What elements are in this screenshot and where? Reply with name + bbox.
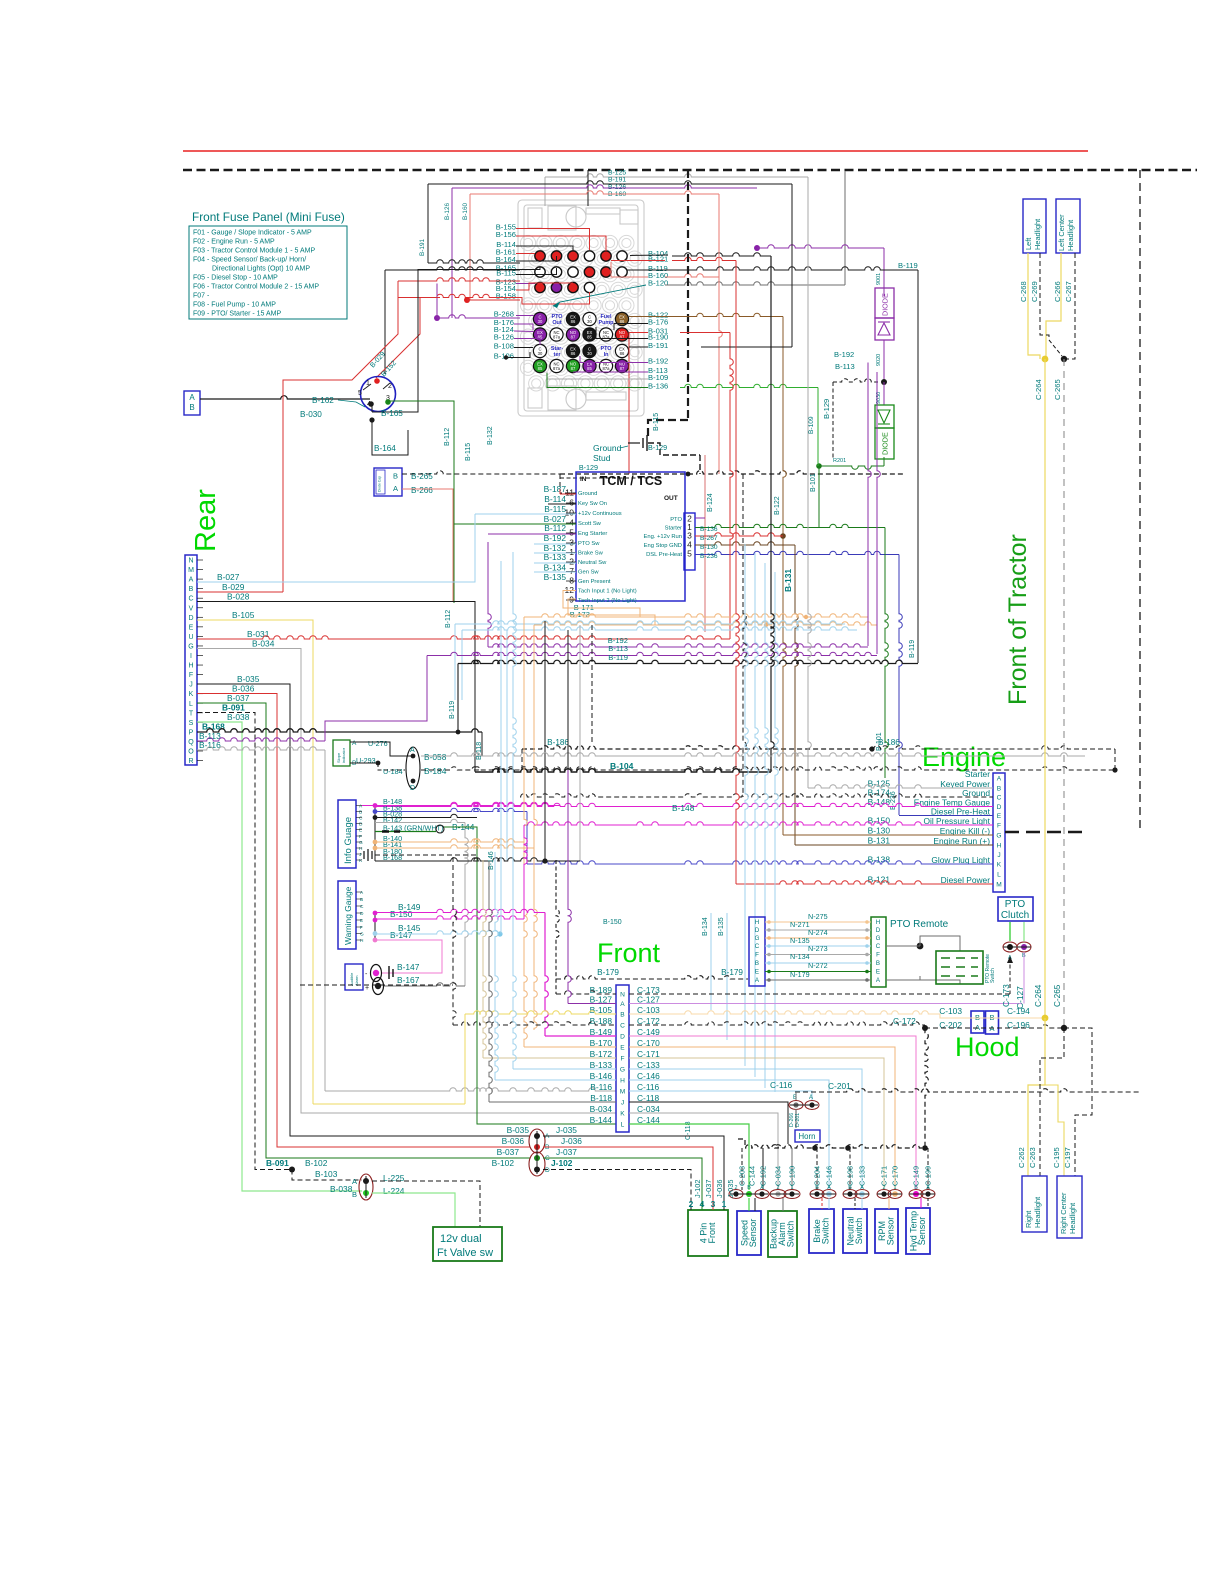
wire B-027 lightblue — [197, 514, 475, 582]
svg-text:Ft Valve sw: Ft Valve sw — [437, 1247, 493, 1259]
svg-text:C: C — [755, 943, 760, 950]
svg-text:B-116: B-116 — [590, 1082, 612, 1092]
wire B-170 orange vertical — [524, 1046, 616, 1048]
svg-text:Stud: Stud — [593, 453, 611, 463]
ground bus dashed vertical — [687, 170, 689, 420]
svg-text:L: L — [189, 701, 193, 708]
svg-text:Sensor: Sensor — [748, 1219, 758, 1248]
svg-text:R: R — [188, 758, 193, 765]
svg-text:5: 5 — [358, 390, 362, 397]
wire L-225 dashed — [372, 1181, 480, 1227]
svg-text:F01 - Gauge / Slope Indicator: F01 - Gauge / Slope Indicator - 5 AMP — [193, 230, 312, 237]
svg-text:Glow Plug Light: Glow Plug Light — [931, 855, 990, 865]
wire B-130 brown out — [695, 542, 795, 545]
svg-text:C-116: C-116 — [770, 1080, 793, 1090]
svg-text:1: 1 — [569, 547, 574, 557]
wire C-196 dashed — [925, 1025, 1064, 1028]
PTO remote wires — [765, 921, 871, 923]
PTO remote left connector — [749, 917, 765, 986]
svg-text:H: H — [876, 919, 880, 926]
engine connector strip — [993, 773, 1005, 892]
svg-text:C-269: C-269 — [1030, 281, 1039, 302]
B-179 dashed row — [556, 976, 748, 979]
wire B-168 black bumps — [197, 729, 482, 732]
gauge circle — [361, 377, 396, 412]
wire B-184 dashed — [421, 767, 1115, 770]
wire C-144 green — [629, 1124, 749, 1190]
svg-text:D-201: D-201 — [795, 1113, 801, 1127]
wire B-030 black from A/B — [200, 396, 370, 399]
svg-text:J-037: J-037 — [704, 1180, 713, 1199]
svg-text:C-197: C-197 — [1063, 1147, 1072, 1168]
wire B-142 — [375, 819, 465, 822]
TCM input wires — [475, 513, 540, 515]
svg-text:30: 30 — [538, 319, 543, 324]
svg-text:F: F — [359, 834, 362, 840]
svg-text:A: A — [352, 1177, 357, 1186]
diode D1 purple — [875, 288, 894, 318]
title rule red — [183, 150, 1088, 152]
svg-text:B-119: B-119 — [909, 640, 916, 658]
svg-text:B: B — [360, 897, 363, 903]
svg-text:B-105: B-105 — [232, 610, 255, 620]
svg-text:+12v Continuous: +12v Continuous — [578, 511, 622, 517]
svg-text:1: 1 — [722, 1199, 727, 1209]
svg-text:B-136: B-136 — [700, 526, 718, 533]
svg-text:5: 5 — [569, 528, 574, 538]
svg-text:E: E — [359, 828, 362, 834]
svg-text:P: P — [189, 729, 194, 736]
svg-text:C-172: C-172 — [893, 1016, 916, 1026]
svg-text:N-134: N-134 — [790, 952, 810, 961]
wire B-038 lightgreen — [197, 722, 362, 1191]
svg-text:L-224: L-224 — [383, 1186, 405, 1196]
svg-text:F: F — [360, 925, 363, 931]
svg-text:C-265: C-265 — [1053, 379, 1062, 400]
svg-text:B-160: B-160 — [462, 203, 469, 220]
wire B-265 dashed — [402, 471, 560, 474]
svg-text:Engine: Engine — [922, 742, 1006, 772]
wire 9020 — [883, 340, 885, 382]
info wires — [373, 803, 378, 808]
diode cap connector — [374, 468, 402, 496]
svg-text:Headlight: Headlight — [1066, 220, 1075, 251]
svg-text:B-134: B-134 — [702, 917, 709, 936]
svg-text:G: G — [876, 935, 881, 942]
legend box — [189, 226, 347, 319]
svg-text:D: D — [359, 822, 363, 828]
svg-text:N-271: N-271 — [790, 920, 810, 929]
svg-text:Out: Out — [552, 320, 561, 326]
svg-text:86: 86 — [620, 351, 625, 356]
svg-text:Front: Front — [597, 938, 661, 968]
svg-text:B-126: B-126 — [444, 203, 451, 220]
svg-text:Ground: Ground — [962, 788, 990, 798]
svg-text:B-034: B-034 — [590, 1104, 613, 1114]
svg-text:B-150: B-150 — [603, 919, 622, 926]
svg-text:C: C — [876, 943, 881, 950]
svg-text:N-179: N-179 — [790, 970, 810, 979]
svg-text:TCM / TCS: TCM / TCS — [600, 474, 663, 488]
wire B-138 glow plug — [527, 861, 993, 864]
svg-text:B-028: B-028 — [227, 592, 250, 602]
svg-text:B-191: B-191 — [648, 341, 668, 350]
svg-text:A: A — [926, 1185, 930, 1191]
svg-text:Switch: Switch — [854, 1218, 864, 1245]
sensor ground bus dashed — [738, 1139, 745, 1148]
svg-text:Scott Sw: Scott Sw — [578, 521, 602, 527]
svg-text:Left: Left — [1024, 238, 1033, 250]
svg-text:Clutch: Clutch — [1001, 910, 1029, 921]
svg-text:C-198: C-198 — [846, 1166, 855, 1186]
svg-text:Neutral Sw: Neutral Sw — [578, 560, 607, 566]
svg-text:U-276: U-276 — [368, 739, 388, 748]
svg-text:B-186: B-186 — [547, 738, 569, 747]
svg-text:B-058: B-058 — [424, 752, 447, 762]
wire B-118 gray vertical — [489, 861, 492, 1102]
backup pins — [770, 1190, 786, 1199]
L-connector circle — [359, 1174, 373, 1200]
svg-text:F08 - Fuel Pump - 10 AMP: F08 - Fuel Pump - 10 AMP — [193, 302, 276, 309]
svg-text:C-201: C-201 — [828, 1081, 851, 1091]
svg-text:A: A — [393, 484, 398, 493]
svg-text:A: A — [997, 776, 1002, 783]
svg-text:K: K — [620, 1111, 625, 1118]
svg-text:DIODE: DIODE — [881, 293, 890, 316]
svg-text:B: B — [189, 403, 194, 412]
svg-text:B-132: B-132 — [487, 426, 494, 445]
wire C-194 light orange — [940, 1014, 1045, 1018]
svg-text:B-103: B-103 — [315, 1169, 338, 1179]
svg-text:B-167: B-167 — [397, 975, 420, 985]
svg-text:87a: 87a — [553, 335, 561, 340]
svg-text:B-034: B-034 — [252, 639, 275, 649]
svg-text:Gen Sw: Gen Sw — [578, 570, 599, 576]
svg-text:B-035: B-035 — [237, 674, 260, 684]
dashed wires to right headlights — [1040, 1028, 1064, 1176]
front rows left wires — [556, 991, 616, 994]
svg-text:C-196: C-196 — [1007, 1020, 1030, 1030]
svg-text:B-164: B-164 — [374, 444, 396, 453]
wire B-101 green lower — [885, 528, 888, 779]
svg-text:H: H — [359, 846, 363, 852]
svg-text:H: H — [755, 919, 759, 926]
svg-text:B: B — [755, 960, 759, 967]
svg-text:Ground: Ground — [578, 491, 597, 497]
svg-text:G: G — [996, 833, 1001, 840]
svg-text:E: E — [620, 1045, 625, 1052]
svg-text:85: 85 — [587, 335, 592, 340]
wire C-133 lightblue — [629, 1069, 862, 1190]
engine bold dashes G row — [1005, 831, 1085, 834]
svg-text:6: 6 — [569, 498, 574, 508]
svg-text:C-267: C-267 — [1064, 281, 1073, 302]
rear connector strip — [185, 555, 197, 765]
lightblue verticals gauges — [500, 561, 502, 934]
B-186 label/dot — [869, 746, 874, 751]
light blue rows — [462, 627, 857, 630]
svg-text:D: D — [545, 1167, 550, 1174]
wire B-112 green from gauge — [388, 401, 454, 603]
svg-text:F05 - Diesel Stop - 10 AMP: F05 - Diesel Stop - 10 AMP — [193, 275, 278, 282]
wire C-171 tan — [629, 1058, 884, 1190]
svg-text:H: H — [997, 843, 1002, 850]
svg-text:Directional Lights (Opt) 10 AM: Directional Lights (Opt) 10 AMP — [212, 266, 310, 273]
svg-text:B: B — [189, 586, 194, 593]
svg-text:G: G — [360, 932, 364, 938]
fuse panel honeycomb — [520, 235, 642, 391]
svg-text:Eng Stop GND: Eng Stop GND — [644, 543, 682, 549]
svg-text:In: In — [604, 352, 609, 358]
connector A/B rear — [184, 391, 200, 415]
fuse dots — [535, 251, 545, 261]
svg-text:B-125: B-125 — [608, 170, 626, 177]
svg-text:Brake Sw: Brake Sw — [578, 551, 604, 557]
svg-text:S: S — [189, 720, 194, 727]
wire B-034 gray — [197, 649, 616, 1114]
wire B-105 yellow jog — [313, 1103, 465, 1105]
svg-text:Gen Present: Gen Present — [578, 579, 611, 585]
svg-text:B-118: B-118 — [476, 742, 483, 760]
svg-text:M: M — [188, 567, 194, 574]
svg-text:K: K — [189, 691, 194, 698]
svg-text:12v dual: 12v dual — [440, 1233, 482, 1245]
svg-text:A: A — [760, 1185, 764, 1191]
wire B-120 gray — [844, 171, 846, 285]
svg-text:B-091: B-091 — [222, 703, 245, 713]
svg-text:B-113: B-113 — [608, 644, 628, 653]
svg-text:Oil Pressure Light: Oil Pressure Light — [923, 816, 990, 826]
fuse panel F1 outline — [518, 200, 644, 416]
svg-text:B-129: B-129 — [648, 443, 667, 452]
svg-text:Right: Right — [1024, 1211, 1033, 1228]
svg-text:B-156: B-156 — [496, 230, 516, 239]
wire C-118 black — [629, 1102, 788, 1144]
sensor box stub wires — [748, 1198, 750, 1211]
svg-text:87: 87 — [620, 366, 625, 371]
svg-text:3: 3 — [569, 538, 574, 548]
svg-text:B-109: B-109 — [808, 416, 815, 434]
svg-text:N-275: N-275 — [808, 912, 828, 921]
slope wires — [350, 742, 413, 756]
svg-text:B-131: B-131 — [868, 836, 891, 846]
svg-text:B: B — [848, 1185, 852, 1191]
svg-text:B: B — [620, 1012, 625, 1019]
wire B-138 blue — [375, 808, 527, 811]
ground stud symbol — [628, 442, 640, 444]
svg-text:2: 2 — [569, 557, 574, 567]
svg-text:B-150: B-150 — [390, 909, 413, 919]
svg-text:J-037: J-037 — [556, 1147, 577, 1157]
wire B-119 black row mid — [458, 660, 918, 663]
wire B-121 diesel power red — [736, 261, 739, 885]
svg-text:Switch: Switch — [786, 1221, 796, 1248]
wire B-119 to diode top — [648, 267, 918, 270]
svg-text:C-265: C-265 — [1053, 984, 1062, 1007]
svg-text:Ground: Ground — [593, 443, 622, 453]
svg-text:B-124: B-124 — [707, 493, 714, 512]
svg-text:A: A — [860, 1185, 864, 1191]
svg-text:B-162: B-162 — [312, 396, 334, 405]
svg-text:J-102: J-102 — [693, 1180, 702, 1199]
svg-text:C-204: C-204 — [813, 1166, 822, 1186]
wire B-149 magenta — [373, 911, 378, 916]
svg-text:U: U — [188, 634, 193, 641]
svg-text:B-112: B-112 — [444, 428, 451, 446]
svg-text:C: C — [620, 1023, 625, 1030]
svg-text:J-036: J-036 — [715, 1180, 724, 1199]
svg-text:H: H — [360, 938, 364, 944]
svg-text:B-266: B-266 — [411, 486, 433, 495]
PTO Clutch box — [998, 897, 1033, 921]
speed sensor pins — [729, 1190, 743, 1199]
svg-text:Diesel Pre-Heat: Diesel Pre-Heat — [931, 806, 991, 816]
svg-text:F: F — [620, 1056, 624, 1063]
vertical B-160 left — [469, 194, 471, 300]
svg-text:C-262: C-262 — [1017, 1147, 1026, 1168]
svg-text:Switch: Switch — [990, 968, 996, 983]
svg-text:B-037: B-037 — [497, 1147, 520, 1157]
svg-text:B-106: B-106 — [494, 352, 514, 361]
svg-text:C: C — [359, 816, 363, 822]
svg-text:ter: ter — [554, 352, 562, 358]
wire B-192 purple row — [488, 644, 868, 647]
svg-text:Q: Q — [188, 739, 194, 746]
svg-text:F: F — [876, 952, 880, 959]
wire B-167 gray — [384, 983, 465, 986]
svg-text:H: H — [620, 1078, 625, 1085]
12v dual box — [433, 1227, 502, 1261]
dashed row B-186 — [522, 746, 872, 749]
wire C-127 lavender vertical — [1023, 952, 1025, 1004]
svg-text:B-129: B-129 — [579, 463, 598, 472]
svg-text:A: A — [189, 577, 194, 584]
svg-text:C-264: C-264 — [1034, 379, 1043, 400]
svg-text:PTO: PTO — [670, 517, 682, 523]
svg-text:G: G — [620, 1067, 625, 1074]
wire B-188 dashed — [300, 984, 453, 986]
svg-text:B-136: B-136 — [648, 382, 668, 391]
svg-text:B-188: B-188 — [590, 1016, 613, 1026]
wire B-143 green/wht — [375, 831, 436, 833]
svg-text:B-101: B-101 — [810, 473, 817, 492]
svg-text:B-102: B-102 — [492, 1158, 515, 1168]
wire B-130 engine kill — [783, 834, 993, 836]
svg-text:B-187: B-187 — [544, 484, 567, 494]
wire B-150 oil pressure — [524, 822, 993, 825]
svg-text:B-135: B-135 — [544, 572, 567, 582]
svg-text:N-274: N-274 — [808, 928, 828, 937]
svg-text:Engine Run (+): Engine Run (+) — [933, 836, 990, 846]
wire L-224 light green — [372, 1193, 455, 1227]
wire B-136 green out — [695, 524, 885, 527]
vertical B-191 left — [427, 184, 429, 263]
svg-text:D: D — [997, 804, 1002, 811]
svg-text:5: 5 — [687, 549, 692, 559]
svg-text:IN: IN — [580, 476, 587, 483]
svg-text:B-038: B-038 — [227, 712, 250, 722]
svg-text:B-036: B-036 — [502, 1136, 525, 1146]
wire C-265 dashed gray long — [1063, 359, 1065, 1028]
svg-text:M: M — [620, 1089, 626, 1096]
wire B-172 tan vertical — [483, 860, 486, 1058]
wire R201 green — [883, 457, 885, 466]
svg-text:E: E — [189, 624, 194, 631]
svg-text:D: D — [620, 1034, 625, 1041]
svg-text:B-130: B-130 — [868, 826, 891, 836]
wire B-180 ground sym — [367, 849, 369, 861]
wires B-134/B-135 lightblue into PTO remote — [710, 913, 712, 1010]
wire B-028b — [373, 815, 378, 820]
wire B-113 purple row mid — [427, 652, 877, 655]
svg-text:C-144: C-144 — [748, 1166, 757, 1186]
svg-text:Switch: Switch — [820, 1218, 830, 1245]
svg-text:85: 85 — [538, 366, 543, 371]
svg-text:E: E — [876, 969, 880, 976]
dashed B-129 vertical right — [832, 382, 834, 460]
svg-text:B-102: B-102 — [305, 1158, 328, 1168]
wire B-124 red vertical — [704, 455, 706, 632]
svg-text:B: B — [815, 1185, 819, 1191]
svg-text:Warning Gauge: Warning Gauge — [343, 886, 353, 945]
svg-text:Pump: Pump — [599, 320, 615, 326]
wire B-236 pre-heat row — [899, 815, 993, 817]
svg-text:+: + — [365, 985, 369, 992]
wire to right headlight yellow — [1028, 1018, 1045, 1176]
svg-text:Rear: Rear — [190, 489, 222, 552]
brake pins — [810, 1190, 824, 1199]
svg-text:B-119: B-119 — [898, 261, 918, 270]
wire C-170 orange — [629, 1047, 895, 1190]
svg-text:T: T — [189, 710, 194, 717]
wire C-034 gray — [629, 1113, 778, 1190]
fuse stub wires left — [516, 229, 590, 251]
svg-text:D: D — [360, 911, 364, 917]
wire B-131 engine run — [795, 844, 993, 846]
svg-text:B-148: B-148 — [672, 803, 695, 813]
wire B-126 purple to diode — [754, 245, 760, 251]
svg-text:30: 30 — [587, 319, 592, 324]
svg-text:B-037: B-037 — [227, 693, 250, 703]
svg-text:Right Center: Right Center — [1059, 1192, 1068, 1234]
svg-text:86: 86 — [571, 351, 576, 356]
svg-text:B: B — [876, 960, 880, 967]
svg-text:J-035: J-035 — [556, 1125, 577, 1135]
svg-text:B-031: B-031 — [247, 629, 270, 639]
diode D2 green — [875, 405, 894, 428]
wire B-174 ground dashed — [520, 794, 993, 797]
wire C-146 lightblue — [629, 1080, 829, 1190]
Left Center Headlight box — [1056, 199, 1080, 253]
svg-text:C-195: C-195 — [1052, 1147, 1061, 1168]
wire C-269 dashed — [1040, 253, 1049, 340]
svg-text:DSL Pre-Heat: DSL Pre-Heat — [646, 552, 682, 558]
svg-text:E: E — [360, 918, 363, 924]
svg-text:87: 87 — [571, 335, 576, 340]
svg-text:V: V — [189, 605, 194, 612]
B-103 dashed — [292, 1170, 362, 1181]
svg-text:C-203: C-203 — [738, 1166, 747, 1186]
svg-text:B: B — [914, 1185, 918, 1191]
dashed row y474 — [560, 471, 905, 474]
svg-text:D: D — [876, 927, 881, 934]
svg-text:Front Fuse Panel (Mini Fuse): Front Fuse Panel (Mini Fuse) — [192, 210, 345, 224]
svg-text:B-191: B-191 — [419, 239, 426, 256]
page border dashed top — [183, 169, 1197, 171]
svg-text:indicator: indicator — [341, 747, 346, 763]
svg-text:Key Sw On: Key Sw On — [578, 501, 607, 507]
svg-text:B: B — [997, 786, 1002, 793]
